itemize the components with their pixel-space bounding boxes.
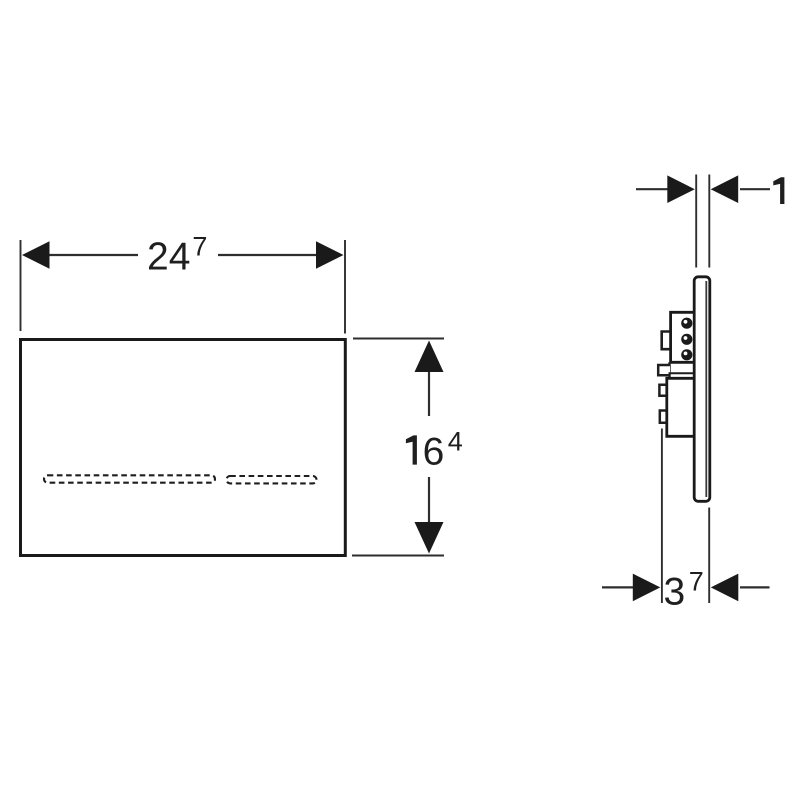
depth dimension: left extension line <box>661 429 663 604</box>
mounting tab fourth clip <box>660 411 670 423</box>
front view: extension line left of width dimension <box>20 240 22 331</box>
depth arrow pointing right <box>633 574 661 602</box>
right button slot (dashed) <box>227 476 317 483</box>
screw 2 <box>681 334 692 345</box>
thickness dimension line left segment <box>636 188 668 190</box>
depth dimension: right extension line <box>708 508 710 604</box>
height dimension line lower segment <box>428 477 430 524</box>
front view: extension line right of width dimension <box>344 240 346 334</box>
frame flange line <box>669 372 694 374</box>
bracket lower body <box>667 378 694 436</box>
thickness arrow pointing right <box>667 175 695 203</box>
mounting tab second clip <box>658 365 670 375</box>
left button slot (dashed) <box>44 475 215 482</box>
depth dimension line right segment <box>740 586 770 588</box>
screw 1 <box>681 318 692 329</box>
side view: thickness extension line right <box>708 175 710 268</box>
depth arrow pointing left <box>711 574 739 602</box>
screw 3 <box>681 349 692 360</box>
thickness dimension label 1 drawn as serif-less path <box>773 177 784 204</box>
thickness dimension line right segment <box>740 188 770 190</box>
height dimension: top extension line <box>353 338 444 340</box>
height dimension line upper segment <box>428 370 430 416</box>
side plate inner face line <box>705 281 707 497</box>
width dimension line right segment <box>218 254 318 256</box>
mounting tab upper clip <box>662 332 673 350</box>
thickness arrow pointing left <box>711 175 739 203</box>
height dimension label 16^4: digit 1 drawn as serif-less path <box>406 435 417 464</box>
height dimension arrow down <box>415 522 444 554</box>
height dimension: bottom extension line <box>352 555 444 557</box>
height dimension arrow up <box>415 341 444 373</box>
width dimension line left segment <box>47 254 138 256</box>
side plate panel <box>694 277 710 502</box>
front plate outline <box>21 340 346 556</box>
bracket upper housing <box>671 312 694 362</box>
mounting tab third clip <box>659 385 670 396</box>
step between housing and frame <box>668 362 670 378</box>
width dimension arrow right <box>316 241 344 269</box>
width dimension arrow left <box>22 241 50 269</box>
depth dimension line left segment <box>602 586 634 588</box>
side view: thickness extension line left <box>695 175 697 268</box>
